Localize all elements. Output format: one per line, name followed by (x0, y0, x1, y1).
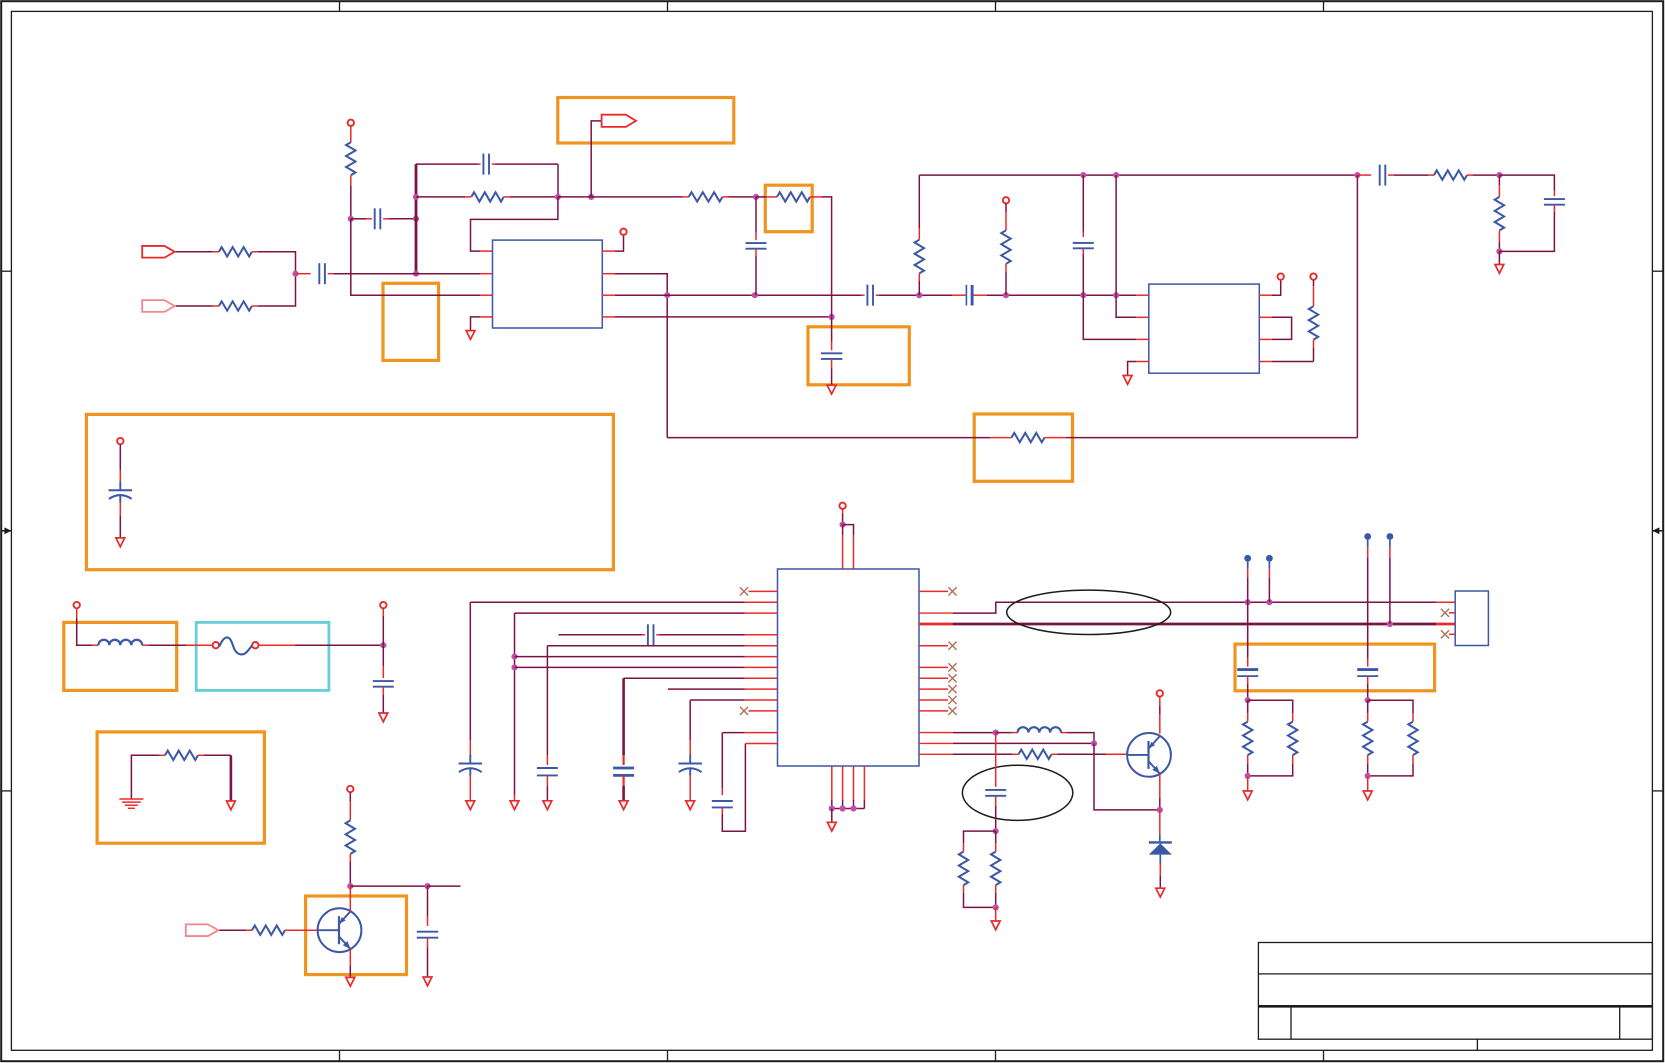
ground (827, 385, 836, 394)
ground (346, 977, 355, 986)
junction (1266, 599, 1272, 605)
wire (119, 503, 121, 538)
highlight box (1235, 644, 1435, 691)
junction (916, 292, 922, 298)
wire (831, 359, 833, 385)
wire (964, 831, 996, 852)
ground (1243, 791, 1252, 800)
wire (1115, 175, 1117, 295)
ground (543, 801, 552, 810)
capacitor C16 (537, 768, 558, 775)
op-amp U1 (493, 240, 603, 328)
wire (558, 196, 585, 198)
capacitor C12 (373, 681, 394, 687)
wire (198, 754, 231, 756)
wire (842, 766, 844, 809)
junction (1354, 172, 1360, 178)
wire (831, 809, 833, 823)
capacitor C2 (483, 154, 489, 175)
wire (919, 742, 1094, 744)
wire (1005, 264, 1007, 295)
junction (752, 292, 758, 298)
blue terminal B3 (1364, 533, 1371, 658)
ground (1156, 888, 1165, 897)
resistor pair R20 R21 (1243, 700, 1297, 776)
junction (413, 194, 419, 200)
wire (415, 164, 418, 274)
wire (832, 808, 865, 810)
capacitor C7 (746, 243, 767, 249)
resistor pair R22 R23 (1363, 700, 1418, 776)
wire (690, 700, 777, 755)
wire (142, 644, 212, 646)
wire (1247, 776, 1249, 791)
wire (602, 316, 831, 318)
no-connect (740, 587, 778, 595)
junction (1245, 773, 1251, 779)
resistor R4 (219, 301, 252, 310)
capacitor C22 (1357, 670, 1378, 677)
ground (466, 801, 475, 810)
capacitor C18 (678, 755, 702, 776)
wire (296, 273, 311, 275)
wire (349, 886, 351, 911)
wire (656, 634, 777, 636)
no-connect (919, 663, 957, 671)
wire (996, 732, 1018, 734)
wire (1498, 230, 1500, 251)
wire (1082, 175, 1084, 237)
wire (349, 854, 351, 886)
wire (1498, 251, 1500, 264)
highlight box (86, 414, 613, 569)
transistor Q1 (318, 908, 362, 952)
wire (918, 175, 920, 240)
wire (1159, 774, 1161, 810)
wire (416, 163, 481, 165)
wire (515, 613, 778, 801)
wire (1499, 175, 1554, 196)
junction (840, 805, 846, 811)
wire (1467, 174, 1499, 176)
ground (619, 801, 628, 810)
bus wire (919, 623, 1455, 626)
wire (349, 949, 351, 977)
capacitor C8 (1380, 165, 1386, 186)
wire (1388, 174, 1434, 176)
wire (1367, 776, 1369, 791)
ground (116, 538, 125, 547)
wire (427, 886, 429, 926)
resistor R11 (1001, 230, 1010, 263)
junction (850, 805, 856, 811)
ground (379, 713, 388, 722)
input flag IN1 (142, 246, 175, 258)
capacitor C13 (417, 932, 439, 938)
earth ground (119, 799, 143, 808)
wire (1247, 602, 1249, 666)
wire (416, 196, 471, 198)
resistor R8 (1309, 306, 1318, 340)
wire (382, 687, 384, 713)
wire (219, 929, 252, 931)
wire (1259, 361, 1313, 363)
wire (415, 196, 417, 198)
wire (689, 776, 691, 801)
wire (1082, 248, 1084, 295)
junction (1365, 773, 1371, 779)
wire (723, 196, 757, 198)
wire (1052, 753, 1128, 755)
highlight ellipse (962, 765, 1072, 820)
power terminal P9 (347, 786, 353, 821)
wire (995, 831, 997, 852)
wire (842, 525, 844, 569)
highlight box (196, 622, 329, 690)
ground (991, 921, 1000, 930)
wire (863, 766, 865, 809)
resistor R16 (252, 926, 285, 935)
no-connect (919, 674, 957, 682)
resistor R14 (165, 751, 198, 760)
capacitor C3 (319, 263, 325, 284)
junction (347, 883, 353, 889)
power terminal P2 (620, 229, 626, 235)
junction (1157, 807, 1163, 813)
wire (843, 525, 854, 569)
junction (511, 664, 517, 670)
junction (424, 883, 430, 889)
wire (351, 218, 372, 220)
wire (1061, 733, 1094, 744)
ground (227, 801, 236, 810)
highlight box (558, 98, 734, 144)
blue terminal B4 (1387, 533, 1394, 624)
ground (510, 801, 519, 810)
wire (756, 196, 777, 198)
capacitor C10 (1544, 199, 1565, 205)
junction (993, 828, 999, 834)
no-connect (740, 707, 778, 715)
wire (964, 885, 996, 907)
resistor R18 (959, 852, 968, 886)
no-connect (919, 587, 957, 595)
highlight box (97, 732, 264, 843)
wire (995, 907, 997, 921)
ic U2 (1149, 284, 1260, 373)
resistor R15 (346, 820, 355, 854)
no-connect (1441, 609, 1455, 617)
no-connect (1441, 630, 1455, 638)
junction (1496, 248, 1502, 254)
wire (755, 197, 757, 240)
ground (423, 977, 432, 986)
wire (471, 317, 493, 331)
wire (918, 273, 920, 295)
wire (831, 317, 833, 351)
ground (827, 822, 836, 831)
capacitor C4 (867, 285, 873, 306)
junction (380, 642, 386, 648)
junction (993, 730, 999, 736)
wire (995, 733, 997, 787)
junction (829, 805, 835, 811)
transistor Q2 (1127, 733, 1171, 777)
wire (602, 274, 667, 438)
power terminal P8 (380, 602, 386, 645)
wire (755, 249, 757, 296)
power terminal P5 (1003, 197, 1009, 230)
wire (328, 273, 416, 275)
capacitor C1 (375, 208, 381, 229)
wire (1499, 205, 1554, 252)
wire (667, 437, 1011, 439)
wire (515, 666, 778, 668)
wire (416, 273, 493, 275)
wire (1045, 437, 1358, 439)
wire (176, 305, 219, 307)
wire (176, 251, 219, 253)
resistor R3 (219, 247, 252, 256)
wire (919, 732, 996, 734)
resistor R19 (991, 852, 1000, 886)
junction (348, 216, 354, 222)
highlight box (306, 896, 407, 975)
wire (492, 164, 558, 197)
resistor R9 (1434, 170, 1467, 179)
highlight box (64, 622, 177, 690)
wire (1313, 340, 1315, 362)
wire (810, 196, 832, 198)
capacitor C11 (109, 481, 133, 502)
no-connect (919, 642, 957, 650)
junction (993, 904, 999, 910)
wire (1159, 810, 1161, 841)
wire (1498, 175, 1500, 197)
junction (1365, 697, 1371, 703)
junction (664, 292, 670, 298)
fuse F1 (213, 637, 259, 654)
wire (1128, 362, 1149, 376)
capacitor C19 (712, 801, 733, 807)
wire (602, 294, 864, 296)
wire (585, 196, 689, 198)
blue terminal B1 (1244, 555, 1251, 602)
capacitor C14 (459, 755, 483, 776)
junction (1245, 697, 1251, 703)
no-connect (919, 707, 957, 715)
wire (383, 218, 416, 220)
resistor R13 (1495, 197, 1504, 231)
wire (624, 678, 778, 765)
capacitor C21 (1237, 670, 1258, 677)
wire (722, 733, 777, 796)
wire (1367, 676, 1369, 700)
wire (470, 602, 777, 754)
resistor R2 (471, 192, 503, 201)
ground (1123, 376, 1132, 385)
wire (469, 776, 471, 801)
highlight box (765, 185, 812, 232)
wire (1356, 175, 1358, 438)
wire (504, 196, 558, 198)
capacitor C15 (648, 624, 654, 645)
wire (1159, 855, 1161, 889)
wire (131, 755, 165, 799)
power terminal P10 (839, 503, 845, 525)
junction (292, 271, 298, 277)
wire (252, 252, 296, 274)
power terminal P7 (74, 602, 93, 645)
wire (285, 929, 318, 931)
junction (1080, 292, 1086, 298)
ground (1363, 791, 1372, 800)
capacitor C20 (985, 790, 1006, 796)
wire (876, 294, 966, 296)
wire (1083, 295, 1149, 339)
wire (995, 796, 997, 831)
power terminal P3 (1278, 273, 1284, 279)
junction (1496, 172, 1502, 178)
wire (515, 656, 778, 658)
resistor R10 (915, 240, 924, 274)
input flag IN2 (142, 300, 175, 312)
junction (829, 314, 835, 320)
wire (1116, 295, 1149, 317)
inductor L1 (98, 640, 142, 645)
ground (1495, 265, 1504, 274)
wire (230, 755, 233, 801)
wire (668, 688, 778, 690)
wire (602, 235, 623, 251)
junction (413, 216, 419, 222)
ground (466, 331, 475, 340)
diode D1 (1149, 842, 1172, 854)
wire (351, 219, 493, 295)
junction (1080, 172, 1086, 178)
wire (350, 885, 427, 887)
wire (252, 274, 296, 306)
wire (547, 646, 777, 765)
wire (1247, 676, 1249, 700)
power terminal P1 (348, 120, 354, 143)
wire (428, 885, 461, 887)
no-connect (919, 696, 957, 704)
wire (995, 885, 997, 907)
capacitor C17 (613, 768, 634, 775)
junction (555, 194, 561, 200)
resistor R12 (1012, 433, 1045, 442)
junction (413, 271, 419, 277)
wire (919, 753, 1019, 755)
ic U3 (778, 569, 920, 766)
junction (588, 194, 594, 200)
inductor L2 (1018, 727, 1061, 732)
wire (1259, 280, 1280, 295)
resistor R1 (346, 142, 355, 175)
power flag NET1 (602, 115, 637, 127)
wire (1259, 317, 1291, 339)
junction (1387, 621, 1393, 627)
junction (1113, 172, 1119, 178)
ground (686, 801, 695, 810)
wire (722, 744, 777, 832)
junction (753, 194, 759, 200)
highlight box (383, 283, 439, 360)
junction (1113, 292, 1119, 298)
capacitor C9 (1073, 243, 1094, 248)
highlight ellipse (1007, 590, 1171, 634)
connector J1 (1455, 591, 1488, 646)
wire (831, 766, 833, 809)
no-connect (919, 685, 957, 693)
highlight box (974, 414, 1072, 481)
wire (471, 197, 558, 251)
wire (546, 775, 548, 800)
resistor R6 (777, 192, 810, 201)
wire (919, 602, 1455, 613)
wire (1367, 659, 1369, 667)
wire (350, 175, 352, 219)
wire (259, 644, 384, 646)
resistor R5 (689, 192, 723, 201)
wire (974, 294, 1149, 296)
capacitor C5 (966, 285, 972, 306)
highlight box (808, 327, 909, 385)
wire (853, 766, 855, 809)
wire (622, 775, 624, 800)
wire (559, 634, 646, 636)
power terminal P6 (117, 438, 123, 482)
junction (1245, 599, 1251, 605)
junction (511, 654, 517, 660)
wire (919, 174, 1357, 176)
wire (831, 197, 833, 317)
resistor R17 (1019, 750, 1052, 759)
power terminal P11 (1157, 690, 1163, 734)
junction (840, 522, 846, 528)
wire (1094, 743, 1160, 810)
junction (1091, 740, 1097, 746)
wire (1357, 174, 1371, 176)
power terminal P4 (1310, 273, 1316, 306)
input flag GPIO (186, 924, 219, 936)
wire (382, 645, 384, 678)
blue terminal B2 (1266, 555, 1273, 602)
wire (92, 644, 98, 646)
wire (427, 938, 429, 977)
capacitor C6 (821, 353, 843, 359)
wire (591, 121, 601, 197)
junction (1003, 292, 1009, 298)
